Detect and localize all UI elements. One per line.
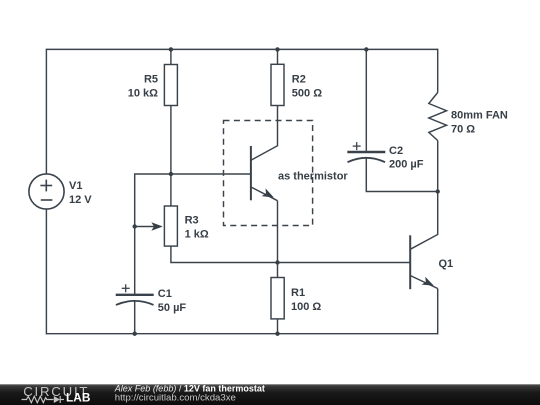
svg-text:V1: V1 — [69, 180, 82, 192]
wire R2 to thermistor collector — [251, 106, 278, 161]
logo resistor-diode squiggle — [22, 396, 65, 403]
wire fan top stub — [437, 49, 439, 93]
svg-text:10 kΩ: 10 kΩ — [128, 88, 158, 100]
label R3 value — [185, 215, 209, 241]
wire R3 bottom to base row — [171, 246, 410, 262]
potentiometer R3 wiper arrow — [135, 222, 163, 231]
voltage source V1 — [29, 174, 64, 209]
label R1 value — [291, 287, 321, 313]
label fan value — [451, 110, 508, 136]
svg-text:50 µF: 50 µF — [158, 302, 187, 314]
wire bottom rail — [46, 333, 437, 335]
wire thermistor base row — [135, 174, 251, 227]
label R5 value — [128, 74, 158, 100]
junction bottom rail / R1 — [275, 332, 279, 336]
svg-text:1 kΩ: 1 kΩ — [185, 229, 209, 241]
wire left rail lower — [45, 209, 47, 335]
potentiometer R3 body — [164, 206, 177, 246]
junction bottom rail / C1 — [133, 332, 137, 336]
wire thermistor emitter to R1 — [277, 201, 279, 278]
capacitor C2 — [347, 142, 385, 162]
junction top rail / R2 — [275, 47, 279, 51]
resistor R2 — [271, 64, 284, 105]
svg-text:C2: C2 — [389, 145, 403, 157]
svg-text:http://circuitlab.com/ckda3xe: http://circuitlab.com/ckda3xe — [115, 393, 236, 404]
CircuitLab logo wordmark — [23, 384, 90, 405]
wire top rail — [46, 48, 437, 50]
svg-text:200 µF: 200 µF — [389, 159, 424, 171]
wire wiper column to C1 — [134, 227, 136, 295]
capacitor C1 — [116, 284, 154, 305]
svg-text:R3: R3 — [185, 215, 199, 227]
footer title line — [114, 383, 265, 403]
junction base row / R5-R3 column — [169, 172, 173, 176]
junction wiper — [133, 224, 137, 228]
wire R5 to R3 — [170, 106, 172, 207]
label R2 value — [292, 74, 322, 100]
junction base row / R1 column — [275, 260, 279, 264]
wire R5 top stub — [170, 49, 172, 64]
label C2 value — [389, 145, 424, 171]
80mm FAN load resistor zigzag — [429, 93, 447, 141]
wire left rail upper — [45, 49, 47, 175]
wire C2 bottom to fan column — [366, 158, 437, 191]
svg-text:as thermistor: as thermistor — [278, 170, 348, 182]
resistor R5 — [164, 65, 177, 106]
svg-text:LAB: LAB — [66, 390, 91, 404]
label V1 value — [69, 180, 92, 206]
svg-text:70 Ω: 70 Ω — [451, 123, 475, 135]
svg-text:100 Ω: 100 Ω — [291, 301, 321, 313]
transistor Q2 used as thermistor — [251, 146, 278, 201]
wire C2 top stub — [365, 49, 367, 152]
svg-text:12 V: 12 V — [69, 194, 92, 206]
junction top rail / C2 — [364, 47, 368, 51]
svg-text:R2: R2 — [292, 74, 306, 86]
resistor R1 — [271, 278, 284, 319]
transistor Q1 — [410, 235, 438, 289]
wire R1 bottom stub — [277, 319, 279, 334]
footer bar — [0, 384, 540, 405]
svg-text:500 Ω: 500 Ω — [292, 87, 322, 99]
wire Q1 emitter down — [437, 289, 439, 335]
svg-text:R5: R5 — [144, 74, 158, 86]
svg-text:80mm FAN: 80mm FAN — [451, 110, 508, 122]
svg-text:Q1: Q1 — [439, 258, 454, 270]
junction top rail / R5 — [169, 47, 173, 51]
svg-text:R1: R1 — [291, 287, 305, 299]
svg-text:C1: C1 — [158, 288, 172, 300]
wire fan to Q1 collector — [410, 141, 438, 250]
wire C1 bottom stub — [134, 301, 136, 334]
wire R2 top stub — [277, 49, 279, 64]
junction C2 wire / fan column — [436, 189, 440, 193]
label C1 value — [158, 288, 187, 314]
dashed box around thermistor — [224, 121, 313, 226]
